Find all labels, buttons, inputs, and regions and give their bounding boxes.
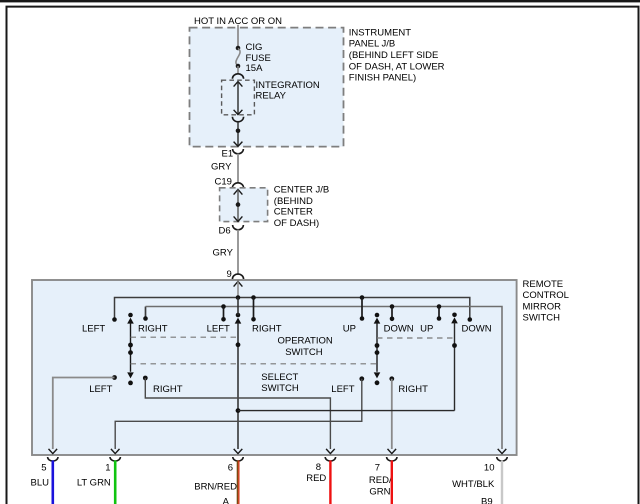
svg-text:CENTER J/B: CENTER J/B bbox=[274, 185, 329, 196]
svg-text:7: 7 bbox=[375, 462, 380, 473]
connector cup below relay bbox=[232, 117, 243, 122]
svg-text:CONTROL: CONTROL bbox=[523, 290, 569, 301]
svg-text:10: 10 bbox=[484, 462, 495, 473]
connector cup D6 bbox=[233, 225, 244, 230]
fuse CIG FUSE 15A bbox=[236, 46, 241, 51]
svg-text:SELECT: SELECT bbox=[261, 372, 298, 383]
svg-text:OPERATION: OPERATION bbox=[278, 336, 333, 347]
svg-text:1: 1 bbox=[105, 462, 110, 473]
center J/B internal wire bbox=[234, 189, 243, 194]
svg-text:CIG: CIG bbox=[246, 42, 263, 53]
svg-text:RELAY: RELAY bbox=[256, 90, 287, 101]
svg-text:LEFT: LEFT bbox=[207, 324, 230, 335]
gang3 DOWN contact riser bbox=[391, 307, 393, 319]
svg-text:(BEHIND: (BEHIND bbox=[274, 196, 313, 207]
center J/B box bbox=[220, 188, 268, 222]
pin 5 exit bbox=[49, 449, 58, 454]
svg-text:SWITCH: SWITCH bbox=[261, 383, 299, 394]
bus 1 junction dots bbox=[236, 295, 241, 300]
svg-text:RIGHT: RIGHT bbox=[153, 384, 183, 395]
gang1 pole bbox=[128, 313, 133, 318]
pin 6 exit bbox=[234, 449, 243, 454]
svg-text:INTEGRATION: INTEGRATION bbox=[256, 80, 320, 91]
svg-text:OF DASH, AT LOWER: OF DASH, AT LOWER bbox=[349, 61, 445, 72]
wire fuse to relay connector bbox=[237, 66, 239, 74]
svg-text:FINISH PANEL): FINISH PANEL) bbox=[349, 73, 416, 84]
svg-text:B9: B9 bbox=[481, 496, 493, 504]
remote control mirror switch box bbox=[32, 280, 517, 455]
svg-text:LEFT: LEFT bbox=[82, 324, 105, 335]
wire pin 9 to bus bbox=[237, 281, 239, 297]
svg-text:6: 6 bbox=[228, 462, 233, 473]
svg-text:LEFT: LEFT bbox=[331, 384, 354, 395]
svg-text:DOWN: DOWN bbox=[462, 324, 492, 335]
wire RED pin 8 bbox=[329, 460, 331, 504]
svg-text:BLU: BLU bbox=[31, 478, 50, 489]
relay contact arrow bbox=[234, 82, 243, 87]
integration relay dashed box bbox=[222, 80, 255, 115]
gang1 LEFT contact bbox=[112, 317, 117, 322]
wire BLU pin 5 bbox=[51, 460, 54, 504]
label REMOTE CONTROL MIRROR SWITCH bbox=[523, 279, 569, 324]
gang2 pole (main feed) bbox=[236, 313, 241, 318]
operation switch linkage dashes bbox=[131, 336, 239, 338]
gang2 RIGHT contact riser bbox=[253, 298, 255, 320]
svg-text:A: A bbox=[223, 496, 230, 504]
svg-text:D6: D6 bbox=[219, 226, 231, 237]
bus 2 junction dots bbox=[221, 304, 226, 309]
wire LT GRN pin 1 bbox=[114, 460, 117, 504]
svg-text:SWITCH: SWITCH bbox=[285, 347, 323, 358]
arrow at J/B exit E1 bbox=[234, 142, 243, 147]
svg-text:8: 8 bbox=[316, 462, 321, 473]
svg-text:RIGHT: RIGHT bbox=[398, 384, 428, 395]
wire relay to E1 with junction bbox=[237, 122, 239, 147]
svg-text:RED: RED bbox=[306, 473, 326, 484]
svg-text:INSTRUMENT: INSTRUMENT bbox=[349, 27, 411, 38]
gang3 UP contact riser bbox=[361, 298, 363, 319]
wire BRN/RED pin 6 bbox=[236, 460, 238, 504]
svg-text:5: 5 bbox=[41, 462, 46, 473]
svg-text:C19: C19 bbox=[215, 177, 232, 188]
connector dome C19 bbox=[232, 183, 243, 188]
connector dome above integration relay bbox=[232, 74, 243, 79]
gang4 UP contact riser bbox=[438, 307, 440, 319]
svg-text:GRN: GRN bbox=[369, 487, 390, 498]
pin 10 exit bbox=[498, 449, 507, 454]
svg-text:UP: UP bbox=[420, 324, 433, 335]
wire RED/GRN pin 7 bbox=[391, 460, 393, 504]
bus 2 riser gang1 right bbox=[145, 307, 147, 319]
bus 1 bbox=[115, 298, 470, 320]
svg-text:(BEHIND LEFT SIDE: (BEHIND LEFT SIDE bbox=[349, 50, 439, 61]
wire GRY D6 to pin 9 bbox=[237, 230, 239, 275]
svg-text:DOWN: DOWN bbox=[384, 324, 414, 335]
select switch gang1 pole arrow bbox=[127, 372, 134, 378]
svg-text:RIGHT: RIGHT bbox=[138, 324, 168, 335]
svg-text:SWITCH: SWITCH bbox=[523, 313, 561, 324]
svg-text:GRY: GRY bbox=[211, 162, 232, 173]
select switch gang2 pole arrow bbox=[374, 372, 381, 378]
connector cup E1 bbox=[233, 149, 244, 154]
svg-text:E1: E1 bbox=[222, 148, 234, 159]
select gang1 RIGHT contact to pin 8 bbox=[143, 376, 148, 381]
pin 9 entry arrow bbox=[234, 281, 243, 286]
frame top border bbox=[0, 0, 640, 2]
instrument panel J/B box bbox=[190, 28, 344, 147]
pin 7 exit bbox=[388, 449, 397, 454]
gang2 LEFT contact riser bbox=[223, 307, 225, 320]
svg-text:BRN/RED: BRN/RED bbox=[194, 481, 237, 492]
wire WHT/BLK pin 10 bbox=[501, 460, 503, 504]
svg-text:OF DASH): OF DASH) bbox=[274, 218, 319, 229]
select gang2 LEFT contact to pin 1 bbox=[359, 376, 364, 381]
pin number labels bbox=[41, 462, 494, 473]
svg-text:GRY: GRY bbox=[213, 248, 234, 259]
gang4 pole bbox=[452, 313, 457, 318]
svg-text:15A: 15A bbox=[246, 63, 264, 74]
select gang1 LEFT contact to pin 5 bbox=[112, 375, 117, 380]
svg-text:WHT/BLK: WHT/BLK bbox=[452, 479, 495, 490]
bus 2 bbox=[146, 307, 503, 450]
svg-text:RIGHT: RIGHT bbox=[252, 324, 282, 335]
wire color labels bbox=[31, 473, 495, 498]
wire GRY E1 to C19 bbox=[237, 154, 239, 184]
svg-text:LT GRN: LT GRN bbox=[77, 478, 111, 489]
svg-text:REMOTE: REMOTE bbox=[523, 279, 564, 290]
pin 8 exit bbox=[326, 449, 335, 454]
svg-text:CENTER: CENTER bbox=[274, 207, 313, 218]
wire from HOT IN ACC to fuse bbox=[237, 25, 239, 47]
gang1 RIGHT contact bbox=[143, 316, 148, 321]
pin 1 exit bbox=[111, 449, 120, 454]
connector dome pin 9 bbox=[232, 274, 243, 279]
wire pin6 junction to gang4 pole bbox=[236, 408, 241, 413]
svg-text:MIRROR: MIRROR bbox=[523, 301, 562, 312]
svg-text:LEFT: LEFT bbox=[89, 384, 112, 395]
svg-text:UP: UP bbox=[343, 324, 356, 335]
gang4 DOWN contact bbox=[468, 317, 473, 322]
svg-text:9: 9 bbox=[227, 269, 232, 280]
select gang2 RIGHT contact to pin 7 bbox=[389, 376, 394, 381]
svg-text:PANEL J/B: PANEL J/B bbox=[349, 39, 395, 50]
select switch linkage dashes bbox=[131, 363, 378, 365]
svg-text:RED/: RED/ bbox=[369, 475, 392, 486]
gang3 pole bbox=[375, 313, 380, 318]
